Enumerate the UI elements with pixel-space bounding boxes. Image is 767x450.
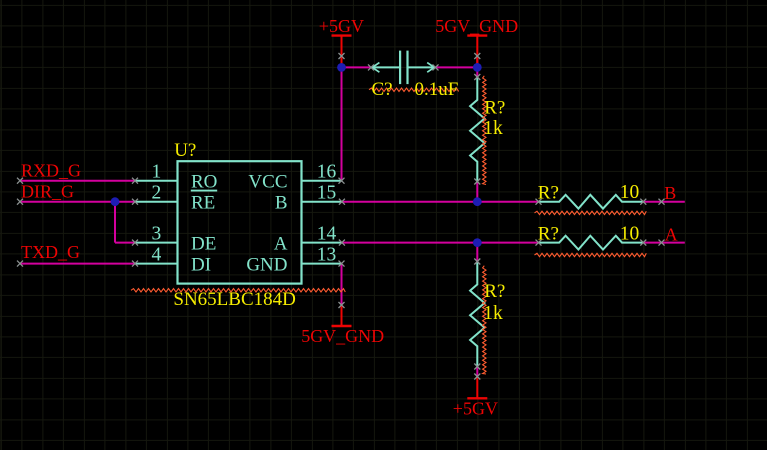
svg-text:RXD_G: RXD_G [21, 161, 81, 181]
svg-text:15: 15 [317, 183, 337, 204]
svg-text:SN65LBC184D: SN65LBC184D [173, 289, 295, 310]
svg-text:R?: R? [484, 98, 505, 119]
svg-text:5GV_GND: 5GV_GND [435, 16, 518, 36]
svg-text:TXD_G: TXD_G [21, 242, 80, 262]
svg-text:A: A [665, 224, 678, 244]
svg-text:GND: GND [246, 255, 287, 276]
svg-text:4: 4 [151, 245, 161, 266]
svg-text:R?: R? [538, 182, 559, 203]
svg-text:U?: U? [174, 140, 196, 161]
svg-text:RO: RO [191, 172, 217, 193]
svg-text:R?: R? [484, 281, 505, 302]
svg-text:DE: DE [191, 234, 216, 255]
svg-text:2: 2 [151, 183, 161, 204]
svg-text:VCC: VCC [248, 172, 287, 193]
svg-text:R?: R? [538, 223, 559, 244]
svg-text:A: A [274, 234, 288, 255]
svg-text:DIR_G: DIR_G [21, 181, 74, 201]
svg-text:+5GV: +5GV [319, 16, 364, 36]
svg-text:5GV_GND: 5GV_GND [301, 326, 384, 346]
svg-text:1: 1 [151, 162, 161, 183]
svg-text:13: 13 [317, 245, 337, 266]
svg-text:1k: 1k [483, 303, 503, 324]
svg-text:DI: DI [191, 255, 211, 276]
svg-text:B: B [275, 193, 288, 214]
svg-text:10: 10 [620, 223, 640, 244]
svg-text:0.1uF: 0.1uF [415, 79, 459, 100]
svg-text:1k: 1k [483, 118, 503, 139]
svg-text:RE: RE [191, 193, 215, 214]
svg-text:+5GV: +5GV [453, 398, 498, 418]
svg-text:B: B [664, 183, 676, 203]
svg-text:10: 10 [620, 182, 640, 203]
svg-text:14: 14 [317, 224, 337, 245]
svg-text:3: 3 [151, 224, 161, 245]
svg-text:16: 16 [317, 162, 337, 183]
svg-text:C?: C? [372, 79, 393, 100]
